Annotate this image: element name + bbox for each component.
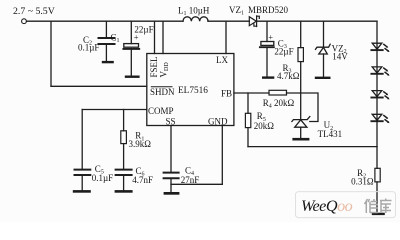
wire C1 top [130, 21, 132, 43]
svg-text:20kΩ: 20kΩ [254, 121, 275, 131]
ground C1 [125, 76, 140, 78]
svg-text:0.31Ω: 0.31Ω [351, 176, 374, 186]
svg-text:+: + [268, 32, 273, 42]
wire C6 bottom [123, 176, 125, 190]
wire GND to C4 line [171, 183, 222, 185]
wire COMP horizontal [82, 109, 147, 111]
svg-text:+: + [134, 32, 139, 42]
ground C2 [102, 61, 114, 63]
svg-text:14V: 14V [332, 52, 348, 62]
ground C6 [115, 190, 133, 193]
ground VZ2 [315, 77, 331, 79]
wire rail coil to diode [208, 20, 249, 22]
svg-text:TL431: TL431 [318, 129, 343, 139]
svg-text:VZ1: VZ1 [229, 5, 244, 17]
ground TL431 [292, 138, 309, 141]
svg-text:FSEL: FSEL [149, 56, 159, 77]
wire LED string vertical [376, 21, 378, 146]
resistor R1 [121, 131, 127, 144]
wire R1 to C6 [123, 144, 125, 169]
svg-text:L1 10µH: L1 10µH [178, 5, 210, 17]
wire FSEL drop [154, 21, 156, 53]
ground C5 [73, 190, 91, 193]
wire FB horizontal [234, 92, 269, 94]
capacitor C2 [99, 38, 115, 44]
svg-text:2.7 ~ 5.5V: 2.7 ~ 5.5V [13, 6, 55, 17]
wire GND pin drop [221, 126, 223, 185]
capacitor C4 [164, 173, 179, 179]
ground R2 [372, 213, 385, 215]
wire VDD drop [162, 21, 164, 53]
wire C3 bottom [266, 48, 268, 76]
svg-text:3.9kΩ: 3.9kΩ [129, 139, 152, 149]
wire rail diode to right corner [257, 20, 377, 22]
wire R2 bottom [376, 182, 378, 213]
wire C5 drop [81, 110, 83, 169]
input terminal circle [22, 19, 27, 24]
LED D2 [371, 67, 389, 76]
wire R3 to TL431 [300, 62, 302, 119]
wire shdn drop vertical [50, 21, 52, 86]
capacitor C6 [116, 170, 132, 175]
capacitor C1 electrolytic [123, 44, 139, 49]
svg-text:GND: GND [208, 116, 228, 126]
wire SS drop [170, 126, 172, 172]
wire C3 top [266, 21, 268, 41]
svg-text:0.1µF: 0.1µF [78, 43, 99, 53]
svg-text:4.7kΩ: 4.7kΩ [277, 71, 300, 81]
wire C4 bottom [170, 179, 172, 192]
wire C1 bottom [130, 50, 132, 76]
wire VZ2 bottom [323, 54, 325, 77]
svg-text:22µF: 22µF [274, 47, 293, 57]
wire bottom rail to R2 [376, 147, 378, 169]
watermark 维 glyph [365, 199, 379, 213]
wire LX drop [225, 21, 227, 53]
wire R4 to ref corner [287, 93, 319, 122]
zener diode VZ2 [316, 44, 331, 54]
wire C2 bottom [105, 45, 107, 61]
resistor R4 [269, 90, 287, 95]
wire R5 drop [247, 93, 249, 113]
wire C5 bottom [81, 176, 83, 190]
op-amp U1 EL7516 IC box [147, 54, 234, 126]
svg-text:4.7nF: 4.7nF [132, 175, 153, 185]
svg-text:WeeQoo: WeeQoo [301, 197, 353, 215]
svg-text:VDD: VDD [159, 62, 171, 78]
wire R3 top [300, 21, 302, 47]
wire R1 top [123, 110, 125, 131]
capacitor C5 [75, 170, 91, 175]
svg-text:SHDN: SHDN [150, 87, 175, 97]
wire bottom rail [248, 146, 377, 148]
svg-text:EL7516: EL7516 [178, 86, 208, 96]
svg-text:R4 20kΩ: R4 20kΩ [263, 98, 295, 110]
resistor R3 [298, 48, 303, 62]
capacitor C3 electrolytic [260, 42, 274, 48]
inductor L1 [183, 17, 208, 21]
svg-text:C1: C1 [111, 32, 120, 44]
svg-text:SS: SS [166, 116, 176, 126]
LED D4 [371, 114, 389, 123]
LED D1 [371, 43, 389, 52]
ground C3 [262, 76, 274, 78]
svg-text:0.1µF: 0.1µF [92, 173, 113, 183]
svg-text:COMP: COMP [148, 106, 174, 116]
wire VZ2 top [323, 21, 325, 47]
transistor U2 TL431 symbol [292, 117, 310, 138]
resistor R2 [375, 168, 380, 182]
wire shdn horizontal [51, 85, 147, 87]
resistor R5 [245, 113, 250, 127]
node labels and values [13, 5, 374, 186]
wire R5 bottom [247, 128, 249, 147]
wire C2 top [105, 21, 107, 37]
LED D3 [371, 91, 389, 100]
svg-text:MBRD520: MBRD520 [248, 5, 289, 15]
watermark 库 glyph [380, 199, 392, 214]
watermark box [296, 192, 396, 218]
diode VZ1 MBRD520 [249, 16, 259, 27]
svg-text:27nF: 27nF [181, 175, 200, 185]
ground C4 [164, 192, 180, 195]
svg-text:FB: FB [221, 88, 232, 98]
svg-text:LX: LX [216, 55, 228, 65]
wire top rail left [27, 20, 184, 22]
